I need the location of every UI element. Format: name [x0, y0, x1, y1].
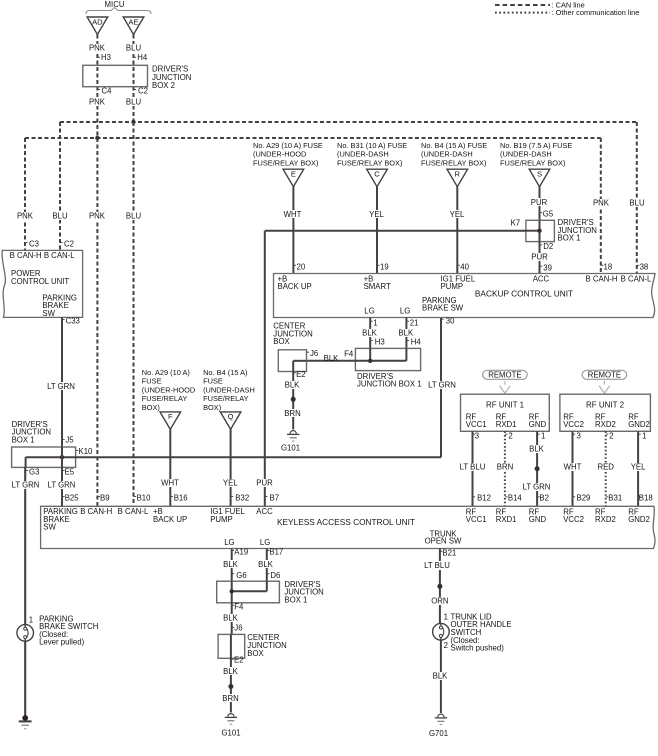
- fuse connector S: [529, 169, 550, 187]
- pin 3 RF2: [573, 433, 576, 435]
- svg-text:H3: H3: [375, 338, 385, 347]
- unit RF UNIT 1: [461, 394, 550, 431]
- svg-text:REMOTE: REMOTE: [588, 371, 621, 380]
- wire PUR D2 to backup pin 39: [539, 242, 541, 274]
- wire BLU CAN from AE to junction: [133, 35, 135, 100]
- svg-text:G5: G5: [543, 210, 554, 219]
- svg-text:REMOTE: REMOTE: [488, 371, 521, 380]
- svg-text:LG: LG: [224, 538, 234, 547]
- unit BACKUP CONTROL UNIT: [274, 274, 656, 318]
- wire PNK CAN down-left to C3: [24, 138, 26, 250]
- svg-text:VCC1: VCC1: [466, 420, 487, 429]
- svg-text:BOX: BOX: [273, 337, 290, 346]
- svg-text:SMART: SMART: [364, 282, 391, 291]
- svg-text:PUR: PUR: [256, 478, 273, 487]
- svg-text:GND: GND: [529, 515, 547, 524]
- svg-text:FUSE/RELAY: FUSE/RELAY: [203, 394, 249, 403]
- svg-text:LG: LG: [400, 307, 410, 316]
- pin 1 backup: [370, 320, 373, 322]
- pin B31: [606, 496, 609, 498]
- pin E2: [293, 372, 296, 374]
- svg-text:G701: G701: [429, 729, 448, 738]
- pin 1 RF1: [537, 433, 540, 435]
- unit RF UNIT 2: [560, 394, 651, 431]
- svg-text:C3: C3: [29, 239, 39, 248]
- wire LT GRN from C33 to driver's junction box 1: [61, 317, 63, 447]
- svg-text:PNK: PNK: [89, 44, 106, 53]
- svg-text:YEL: YEL: [223, 478, 238, 487]
- ground G701: [438, 714, 444, 717]
- svg-text:G3: G3: [29, 468, 39, 477]
- svg-text:VCC2: VCC2: [563, 515, 584, 524]
- svg-text:B21: B21: [442, 548, 456, 557]
- wire LT BLU RF1 VCC1 to B12: [472, 431, 474, 506]
- pin F4 bottom: [232, 604, 235, 606]
- svg-text:WHT: WHT: [284, 210, 302, 219]
- pin 2 RF1: [505, 433, 508, 435]
- wire PNK CAN down to keyless B9: [96, 138, 98, 506]
- splice BLK/BRN bottom: [228, 684, 233, 689]
- svg-text:C4: C4: [102, 86, 113, 95]
- svg-text:B9: B9: [100, 494, 110, 503]
- junction box CENTER JUNCTION BOX bottom: [218, 634, 245, 658]
- svg-text:39: 39: [543, 263, 552, 272]
- svg-text:B17: B17: [269, 548, 283, 557]
- svg-text:LT GRN: LT GRN: [428, 381, 456, 390]
- fuse connector F: [160, 412, 181, 430]
- svg-text:B14: B14: [508, 494, 523, 503]
- svg-text:PNK: PNK: [89, 97, 106, 106]
- pin 1 RF2: [638, 433, 641, 435]
- svg-text:No. B31 (10 A) FUSE: No. B31 (10 A) FUSE: [337, 141, 407, 150]
- pin B17: [267, 550, 270, 552]
- svg-text:D6: D6: [270, 571, 280, 580]
- pin B10: [134, 496, 137, 498]
- node REMOTE 1: [483, 370, 528, 379]
- svg-text:B16: B16: [174, 494, 188, 503]
- pin C2: [134, 89, 137, 91]
- svg-text:B CAN-H: B CAN-H: [586, 274, 618, 283]
- svg-text:OPEN SW: OPEN SW: [425, 537, 462, 546]
- wire BLK trunk switch to ground G701: [440, 640, 442, 713]
- svg-text:R: R: [455, 170, 461, 179]
- svg-text:G101: G101: [281, 443, 300, 452]
- pin B14: [505, 496, 508, 498]
- svg-text:BRN: BRN: [497, 463, 513, 472]
- svg-text:BLU: BLU: [126, 44, 142, 53]
- svg-text:B25: B25: [65, 494, 80, 503]
- svg-text:PNK: PNK: [593, 198, 610, 207]
- svg-text:3: 3: [577, 431, 581, 440]
- svg-text:H4: H4: [411, 338, 422, 347]
- wires inside bottom JB1: [231, 581, 233, 603]
- splice BLK/LT GRN: [535, 466, 540, 471]
- svg-text:VCC2: VCC2: [563, 420, 584, 429]
- svg-text:PUMP: PUMP: [210, 515, 233, 524]
- svg-text:ACC: ACC: [533, 274, 550, 283]
- svg-text:BLK: BLK: [433, 672, 449, 681]
- svg-text:BACK UP: BACK UP: [278, 282, 312, 291]
- svg-text:K7: K7: [511, 219, 521, 228]
- wire BLK E2 to ground: [292, 372, 294, 430]
- wire BLK E2 to ground G101: [230, 658, 232, 712]
- svg-text:RXD1: RXD1: [496, 515, 517, 524]
- svg-text:BOX 2: BOX 2: [152, 81, 175, 90]
- pin D6: [267, 573, 270, 575]
- pin H4: [406, 340, 409, 342]
- ground G101 upper: [290, 431, 296, 434]
- svg-text:BLU: BLU: [126, 97, 142, 106]
- svg-text:LT GRN: LT GRN: [12, 481, 40, 490]
- svg-text:BLK: BLK: [529, 444, 545, 453]
- svg-text:A19: A19: [234, 548, 248, 557]
- wire BLU CAN down-left to C2: [59, 122, 61, 250]
- svg-text:J6: J6: [234, 624, 242, 633]
- pin B21: [440, 550, 443, 552]
- wire YEL fuse R to backup pin 40: [456, 187, 458, 274]
- pin H4: [134, 56, 137, 58]
- svg-text:RF UNIT 1: RF UNIT 1: [486, 401, 525, 410]
- pin C4: [97, 89, 100, 91]
- svg-text:BRN: BRN: [222, 694, 238, 703]
- junction BLU bus: [131, 120, 135, 124]
- pin A19: [232, 550, 235, 552]
- svg-text:20: 20: [297, 262, 306, 271]
- svg-text:H3: H3: [101, 53, 111, 62]
- wire BLK F4 to J6: [231, 603, 233, 635]
- junction box DRIVER'S JUNCTION BOX 2: [83, 65, 148, 86]
- svg-text:No. B19 (7.5 A) FUSE: No. B19 (7.5 A) FUSE: [500, 141, 572, 150]
- svg-text:E: E: [291, 170, 296, 179]
- svg-text:FUSE/RELAY BOX): FUSE/RELAY BOX): [421, 158, 486, 167]
- svg-text:B10: B10: [137, 494, 152, 503]
- svg-text:BLK: BLK: [258, 560, 274, 569]
- junction G6/D6: [230, 589, 234, 593]
- svg-text:1: 1: [373, 318, 377, 327]
- svg-text:PUR: PUR: [531, 252, 548, 261]
- pin D2: [540, 244, 543, 246]
- pin 21 backup: [406, 320, 409, 322]
- wire LT GRN E5 to keyless B25: [61, 467, 63, 506]
- wire inside center junction box: [293, 360, 306, 362]
- svg-text:LG: LG: [260, 538, 270, 547]
- fuse connector R: [447, 169, 468, 187]
- svg-text:S: S: [537, 170, 542, 179]
- pin G5: [540, 212, 543, 214]
- wire BLU CAN down-right to backup 38: [636, 122, 638, 274]
- CAN bus upper (BLU): [60, 121, 637, 123]
- pin J6: [307, 351, 310, 353]
- svg-text:YEL: YEL: [369, 210, 384, 219]
- pin H3: [97, 56, 100, 58]
- pin H3: [370, 340, 373, 342]
- svg-text:YEL: YEL: [631, 463, 646, 472]
- svg-text:1: 1: [444, 613, 448, 622]
- ground parking brake switch: [22, 715, 28, 721]
- pin G3: [26, 470, 29, 472]
- pin B9: [97, 496, 100, 498]
- switch PARKING BRAKE SWITCH: [17, 625, 34, 642]
- svg-text:38: 38: [640, 262, 649, 271]
- CAN bus lower (PNK): [25, 137, 601, 139]
- svg-text:No. B4 (15 A) FUSE: No. B4 (15 A) FUSE: [421, 141, 487, 150]
- unit KEYLESS ACCESS CONTROL UNIT: [41, 506, 655, 548]
- svg-text:AD: AD: [92, 17, 103, 26]
- svg-text:K10: K10: [79, 447, 94, 456]
- svg-text:B CAN-L: B CAN-L: [621, 274, 652, 283]
- svg-text:ACC: ACC: [256, 507, 273, 516]
- svg-text:WHT: WHT: [161, 478, 179, 487]
- svg-text:BOX): BOX): [203, 403, 221, 412]
- svg-text:FUSE/RELAY BOX): FUSE/RELAY BOX): [500, 158, 565, 167]
- svg-text:BACK UP: BACK UP: [153, 515, 187, 524]
- svg-text:YEL: YEL: [450, 210, 465, 219]
- svg-text:19: 19: [380, 262, 389, 271]
- svg-text:LT BLU: LT BLU: [424, 561, 450, 570]
- pin B7: [265, 496, 268, 498]
- svg-text:SW: SW: [43, 523, 56, 532]
- pin J6 bottom: [232, 626, 235, 628]
- svg-text:21: 21: [410, 318, 419, 327]
- svg-text:C: C: [374, 170, 380, 179]
- pin B32: [231, 496, 234, 498]
- svg-text:C33: C33: [66, 317, 80, 326]
- svg-text:18: 18: [604, 262, 613, 271]
- pin 20: [293, 264, 296, 266]
- junction H3/H4/F4: [368, 359, 372, 363]
- svg-text:BOX 1: BOX 1: [284, 595, 307, 604]
- pin 30 backup: [441, 318, 444, 320]
- splice BLK/BRN: [291, 397, 296, 402]
- junction box DRIVER'S JUNCTION BOX 1 right: [526, 220, 555, 241]
- svg-text:No. A29 (10 A) FUSE: No. A29 (10 A) FUSE: [253, 141, 323, 150]
- wire BRN RF1 RXD1 to B14 dotted: [504, 431, 506, 506]
- wire WHT fuse E to backup pin 20: [292, 187, 294, 274]
- svg-text:LT BLU: LT BLU: [460, 463, 486, 472]
- pin B12: [473, 496, 476, 498]
- svg-text:B31: B31: [608, 494, 622, 503]
- wire PNK CAN down-right to backup 18: [600, 138, 602, 274]
- fuse connector Q: [220, 412, 241, 430]
- svg-text:F4: F4: [344, 349, 354, 358]
- svg-text:B7: B7: [270, 494, 280, 503]
- svg-text:ORN: ORN: [431, 597, 448, 606]
- svg-text:1: 1: [29, 615, 33, 624]
- svg-text:(UNDER-DASH: (UNDER-DASH: [337, 150, 389, 159]
- wire inside center junction box bottom: [230, 634, 232, 658]
- svg-text:FUSE/RELAY BOX): FUSE/RELAY BOX): [253, 158, 318, 167]
- wire RED RF2 RXD2 to B31 dotted: [605, 431, 607, 506]
- svg-text:SW: SW: [42, 309, 55, 318]
- wire LT GRN G3 to parking brake switch: [24, 467, 26, 624]
- wire YEL RF2 GND2 to B18: [637, 431, 639, 506]
- pin B18: [638, 496, 641, 498]
- svg-text:PNK: PNK: [89, 212, 106, 221]
- svg-text:D2: D2: [543, 242, 553, 251]
- svg-text:BOX: BOX: [247, 649, 264, 658]
- svg-text:RXD1: RXD1: [496, 420, 517, 429]
- svg-text:1: 1: [541, 431, 545, 440]
- wire BLK/LT GRN RF1 GND to B2: [536, 431, 538, 506]
- svg-text:B29: B29: [577, 494, 591, 503]
- svg-text:BRN: BRN: [284, 409, 300, 418]
- svg-text:E2: E2: [234, 655, 244, 664]
- svg-text:BLK: BLK: [285, 381, 301, 390]
- svg-text:1: 1: [642, 431, 646, 440]
- pin E2 bottom: [231, 658, 234, 660]
- svg-text:No. B4 (15 A): No. B4 (15 A): [203, 368, 247, 377]
- wire WHT RF2 VCC2 to B29: [572, 431, 574, 506]
- svg-text:C2: C2: [138, 86, 148, 95]
- svg-text:(UNDER-DASH: (UNDER-DASH: [203, 385, 255, 394]
- svg-text:GND: GND: [529, 420, 547, 429]
- svg-text:RED: RED: [597, 463, 614, 472]
- box POWER CONTROL UNIT: [2, 250, 83, 317]
- svg-text:(UNDER-HOOD: (UNDER-HOOD: [253, 150, 306, 159]
- svg-text:(UNDER-HOOD: (UNDER-HOOD: [142, 385, 195, 394]
- svg-text:B CAN-L: B CAN-L: [118, 507, 149, 516]
- svg-text:CONTROL UNIT: CONTROL UNIT: [11, 277, 69, 286]
- pin C3: [25, 242, 28, 244]
- svg-text:FUSE: FUSE: [203, 377, 223, 386]
- splice LT BLU/ORN: [437, 584, 442, 589]
- svg-text:(UNDER-DASH: (UNDER-DASH: [421, 150, 473, 159]
- svg-text:WHT: WHT: [564, 463, 582, 472]
- svg-text:BLK: BLK: [362, 328, 378, 337]
- svg-text:FUSE/RELAY: FUSE/RELAY: [142, 394, 188, 403]
- svg-text:LT GRN: LT GRN: [47, 382, 75, 391]
- svg-text:30: 30: [446, 316, 455, 325]
- svg-text:PUMP: PUMP: [441, 282, 464, 291]
- svg-text:BRAKE SW: BRAKE SW: [422, 304, 464, 313]
- svg-text:PUR: PUR: [531, 198, 548, 207]
- pin B16: [170, 496, 173, 498]
- svg-text:FUSE: FUSE: [142, 377, 162, 386]
- junction box DRIVER'S JUNCTION BOX 1 bottom: [217, 581, 280, 603]
- svg-text:2: 2: [508, 431, 512, 440]
- svg-text:BLK: BLK: [398, 328, 414, 337]
- pin B2: [537, 496, 540, 498]
- wire BLK backup 1 to H3: [369, 318, 371, 349]
- svg-text:2: 2: [444, 641, 448, 650]
- pin 19: [377, 264, 380, 266]
- svg-text:2: 2: [609, 431, 613, 440]
- svg-text:40: 40: [460, 262, 469, 271]
- fuse connector E: [283, 169, 304, 187]
- svg-text:C2: C2: [64, 239, 74, 248]
- ground G101 bottom: [228, 714, 234, 717]
- svg-text:J5: J5: [65, 436, 74, 445]
- svg-text:E5: E5: [65, 468, 75, 477]
- svg-text:Switch pushed): Switch pushed): [451, 644, 505, 653]
- svg-text:B CAN-H: B CAN-H: [80, 507, 112, 516]
- svg-text:BACKUP CONTROL UNIT: BACKUP CONTROL UNIT: [475, 289, 573, 299]
- switch TRUNK LID OUTER HANDLE SWITCH: [433, 623, 450, 640]
- svg-text:F: F: [168, 412, 173, 421]
- svg-text:No. A29 (10 A): No. A29 (10 A): [142, 368, 190, 377]
- pin 2 RF2: [606, 433, 609, 435]
- svg-text:BOX): BOX): [142, 403, 160, 412]
- legend other communication line: [495, 12, 550, 14]
- svg-text:GND2: GND2: [628, 420, 650, 429]
- legend CAN line: [495, 4, 550, 6]
- svg-text:H4: H4: [137, 53, 148, 62]
- svg-text:JUNCTION BOX 1: JUNCTION BOX 1: [357, 380, 422, 389]
- svg-text:B18: B18: [639, 494, 653, 503]
- pin 18: [601, 264, 604, 266]
- wire BLU CAN down to keyless B10: [133, 122, 135, 506]
- svg-text:BOX 1: BOX 1: [12, 435, 35, 444]
- pin C33: [62, 319, 65, 321]
- svg-text:PNK: PNK: [17, 212, 34, 221]
- wire YEL fuse C to backup pin 19: [376, 187, 378, 274]
- wire parking brake switch to ground: [24, 641, 26, 716]
- svg-text:RXD2: RXD2: [595, 515, 616, 524]
- pin K10: [76, 450, 79, 452]
- svg-text:J6: J6: [310, 349, 318, 358]
- svg-text:BLU: BLU: [629, 198, 645, 207]
- svg-text:LT GRN: LT GRN: [48, 481, 76, 490]
- svg-text:Q: Q: [228, 412, 234, 421]
- pin 38: [637, 264, 640, 266]
- svg-text:B12: B12: [477, 494, 491, 503]
- wires inside middle JB1: [369, 348, 371, 360]
- connector AE: [123, 17, 144, 35]
- svg-text:B2: B2: [539, 494, 549, 503]
- wire LT BLU B21 to trunk switch: [439, 549, 441, 624]
- svg-text:FUSE/RELAY BOX): FUSE/RELAY BOX): [337, 158, 402, 167]
- node REMOTE 2: [582, 370, 627, 379]
- wire inside JB1 and K10 wire to pin 30: [26, 456, 441, 458]
- svg-text:BLK: BLK: [223, 560, 239, 569]
- svg-text:B32: B32: [235, 494, 249, 503]
- pin B25: [62, 496, 65, 498]
- svg-text:BOX 1: BOX 1: [558, 234, 581, 243]
- wire PUR ACC down to keyless B7: [264, 231, 266, 507]
- wire ACC from K7 junction: [265, 230, 526, 232]
- svg-text:G101: G101: [221, 729, 240, 738]
- wire YEL fuse Q to keyless B32: [230, 429, 232, 506]
- wire BLK A19 to G6: [231, 549, 233, 582]
- svg-text:KEYLESS ACCESS CONTROL UNIT: KEYLESS ACCESS CONTROL UNIT: [277, 517, 415, 527]
- wire WHT fuse F to keyless B16: [169, 429, 171, 506]
- junction PNK bus: [95, 136, 99, 140]
- svg-text:B CAN-H B CAN-L: B CAN-H B CAN-L: [10, 251, 76, 260]
- svg-text:LT GRN: LT GRN: [523, 483, 551, 492]
- svg-text:E2: E2: [296, 370, 306, 379]
- svg-text:BLK: BLK: [324, 354, 340, 363]
- pin 39: [540, 265, 543, 267]
- junction J5/E5/K10: [60, 455, 64, 459]
- junction box DRIVER'S JUNCTION BOX 1 middle: [355, 348, 420, 370]
- svg-text:BLU: BLU: [52, 212, 68, 221]
- svg-text:3: 3: [475, 431, 479, 440]
- pin 40: [457, 264, 460, 266]
- pin 3 RF1: [473, 433, 476, 435]
- svg-text:(UNDER-DASH: (UNDER-DASH: [500, 150, 552, 159]
- junction K7/G5: [537, 229, 541, 233]
- svg-text:BLK: BLK: [223, 667, 239, 676]
- pin J5: [62, 439, 65, 441]
- wire PNK CAN from AD to junction: [96, 35, 98, 100]
- wire PUR fuse S to G5: [539, 187, 541, 221]
- connector AD: [87, 17, 108, 35]
- wire BLK B17 to D6: [266, 549, 268, 582]
- svg-text:BLU: BLU: [126, 212, 142, 221]
- fuse connector C: [367, 169, 388, 187]
- svg-text:GND2: GND2: [628, 515, 650, 524]
- wire BLK backup 21 to H4: [405, 318, 407, 349]
